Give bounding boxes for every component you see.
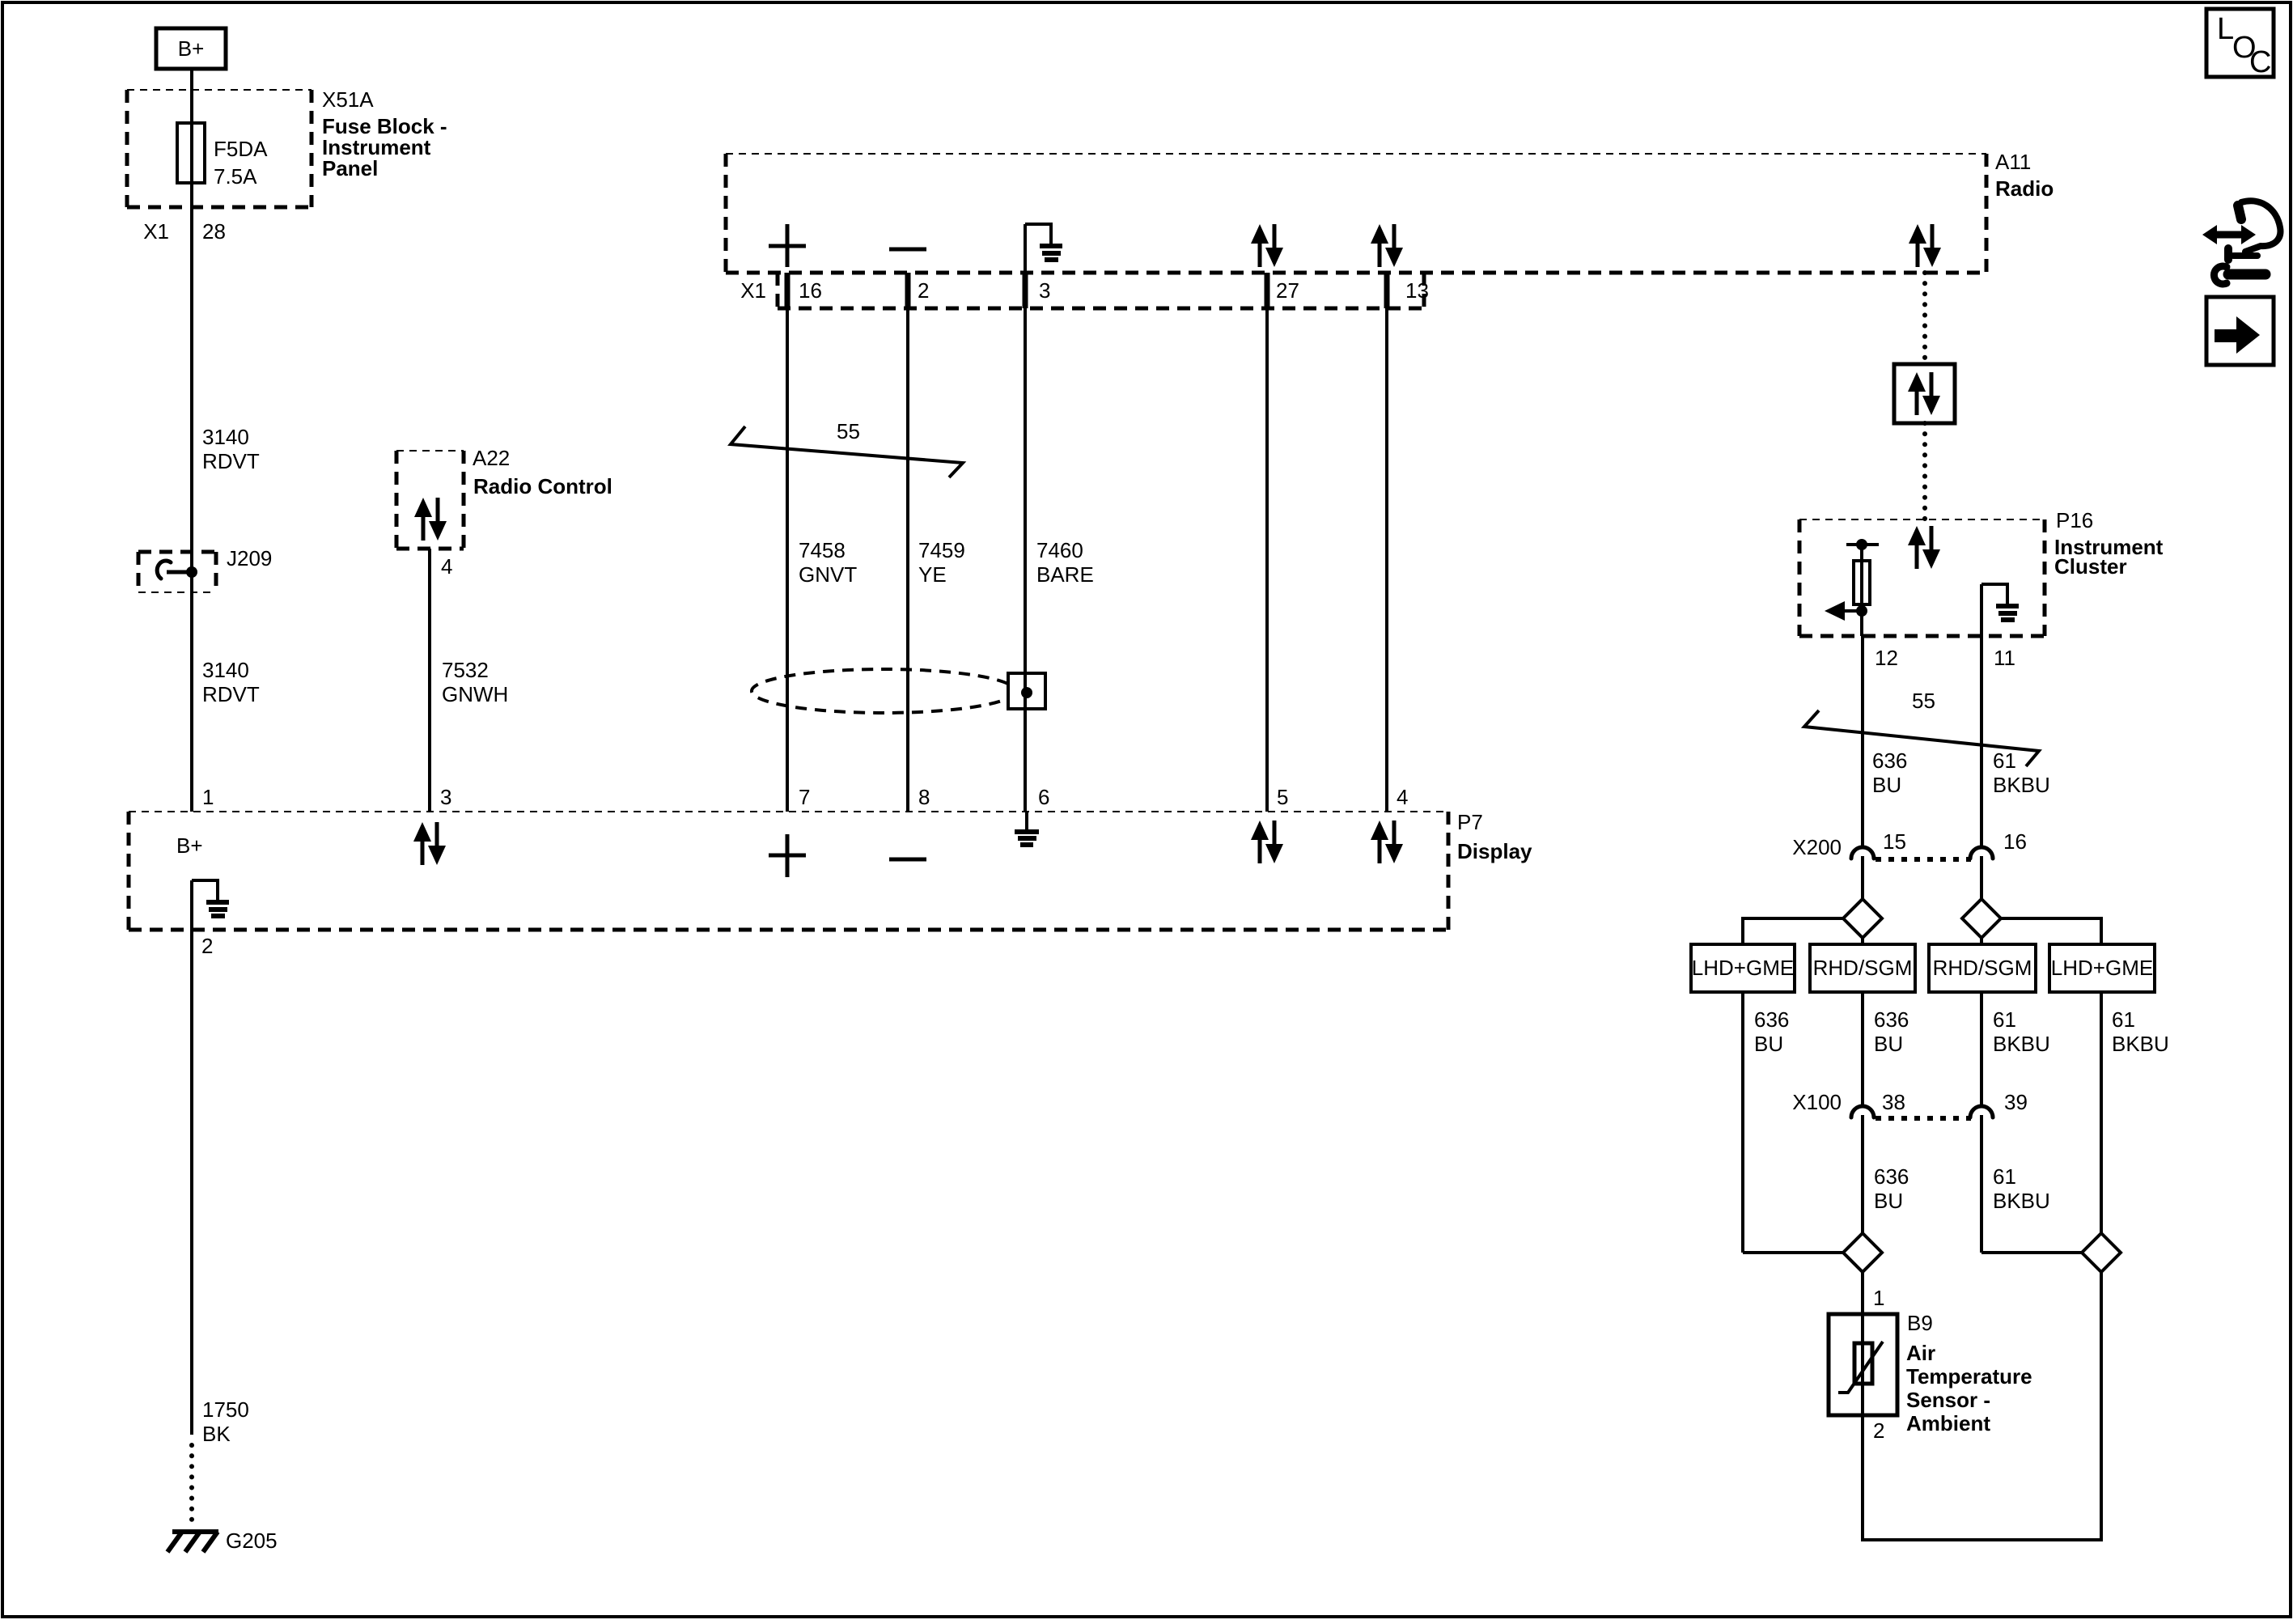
svg-text:A22: A22 <box>473 446 510 470</box>
svg-text:7: 7 <box>799 785 810 809</box>
svg-text:BK: BK <box>202 1422 231 1446</box>
svg-text:X200: X200 <box>1792 835 1842 859</box>
svg-text:4: 4 <box>1397 785 1408 809</box>
svg-text:636: 636 <box>1874 1164 1909 1189</box>
svg-text:BKBU: BKBU <box>1993 1032 2050 1056</box>
svg-text:LHD+GME: LHD+GME <box>1692 956 1794 980</box>
svg-text:G205: G205 <box>226 1529 278 1553</box>
svg-text:13: 13 <box>1405 278 1429 303</box>
svg-text:Radio: Radio <box>1995 176 2054 201</box>
svg-text:636: 636 <box>1874 1007 1909 1032</box>
svg-text:BKBU: BKBU <box>1993 773 2050 797</box>
svg-text:BKBU: BKBU <box>2112 1032 2169 1056</box>
svg-text:7.5A: 7.5A <box>214 164 257 189</box>
svg-text:12: 12 <box>1875 646 1898 670</box>
svg-text:X51A: X51A <box>322 87 374 112</box>
svg-text:Display: Display <box>1457 839 1532 863</box>
svg-text:BU: BU <box>1754 1032 1783 1056</box>
svg-text:RHD/SGM: RHD/SGM <box>1933 956 2032 980</box>
svg-text:11: 11 <box>1994 646 2015 670</box>
svg-text:BARE: BARE <box>1036 562 1094 587</box>
svg-text:61: 61 <box>2112 1007 2135 1032</box>
svg-text:Air: Air <box>1906 1341 1935 1365</box>
svg-text:BU: BU <box>1874 1032 1903 1056</box>
svg-text:L: L <box>2217 12 2234 46</box>
svg-text:16: 16 <box>799 278 822 303</box>
svg-text:Ambient: Ambient <box>1906 1411 1990 1435</box>
svg-text:P16: P16 <box>2056 508 2093 532</box>
svg-text:Panel: Panel <box>322 156 378 180</box>
svg-text:61: 61 <box>1993 1164 2016 1189</box>
svg-text:3140: 3140 <box>202 425 249 449</box>
svg-text:RDVT: RDVT <box>202 449 260 473</box>
svg-text:15: 15 <box>1883 829 1906 854</box>
svg-text:636: 636 <box>1872 748 1907 773</box>
svg-text:61: 61 <box>1993 1007 2016 1032</box>
svg-text:55: 55 <box>1912 689 1935 713</box>
svg-text:38: 38 <box>1882 1090 1905 1114</box>
svg-text:3: 3 <box>1039 278 1050 303</box>
svg-text:GNWH: GNWH <box>442 682 508 706</box>
svg-text:6: 6 <box>1038 785 1049 809</box>
svg-text:A11: A11 <box>1995 150 2031 174</box>
svg-text:7458: 7458 <box>799 538 846 562</box>
svg-text:4: 4 <box>441 554 452 579</box>
svg-text:RDVT: RDVT <box>202 682 260 706</box>
svg-text:1750: 1750 <box>202 1397 249 1422</box>
svg-text:55: 55 <box>837 419 860 443</box>
svg-text:5: 5 <box>1277 785 1288 809</box>
svg-text:F5DA: F5DA <box>214 137 268 161</box>
svg-text:7459: 7459 <box>918 538 965 562</box>
svg-text:BU: BU <box>1872 773 1901 797</box>
svg-text:YE: YE <box>918 562 947 587</box>
svg-text:636: 636 <box>1754 1007 1789 1032</box>
svg-text:28: 28 <box>202 219 226 244</box>
svg-text:RHD/SGM: RHD/SGM <box>1813 956 1913 980</box>
svg-text:X100: X100 <box>1792 1090 1842 1114</box>
svg-text:1: 1 <box>202 785 214 809</box>
svg-text:BKBU: BKBU <box>1993 1189 2050 1213</box>
svg-text:X1: X1 <box>143 219 169 244</box>
svg-text:3140: 3140 <box>202 658 249 682</box>
svg-text:Sensor -: Sensor - <box>1906 1388 1990 1412</box>
svg-text:61: 61 <box>1993 748 2016 773</box>
svg-text:27: 27 <box>1276 278 1299 303</box>
svg-text:B9: B9 <box>1907 1311 1933 1335</box>
svg-text:16: 16 <box>2003 829 2027 854</box>
svg-text:Temperature: Temperature <box>1906 1364 2032 1389</box>
svg-text:B+: B+ <box>178 36 205 61</box>
svg-text:GNVT: GNVT <box>799 562 857 587</box>
svg-text:B+: B+ <box>176 833 203 858</box>
svg-text:X1: X1 <box>740 278 766 303</box>
svg-text:2: 2 <box>201 934 213 958</box>
svg-text:C: C <box>2249 45 2271 79</box>
svg-text:7532: 7532 <box>442 658 489 682</box>
svg-text:LHD+GME: LHD+GME <box>2051 956 2153 980</box>
svg-text:1: 1 <box>1873 1286 1884 1310</box>
svg-text:Radio Control: Radio Control <box>473 474 612 498</box>
svg-text:2: 2 <box>918 278 929 303</box>
svg-text:39: 39 <box>2004 1090 2028 1114</box>
svg-text:Cluster: Cluster <box>2054 554 2127 579</box>
svg-text:2: 2 <box>1873 1418 1884 1443</box>
svg-text:P7: P7 <box>1457 810 1483 834</box>
svg-text:BU: BU <box>1874 1189 1903 1213</box>
svg-text:7460: 7460 <box>1036 538 1083 562</box>
svg-text:3: 3 <box>440 785 451 809</box>
svg-text:8: 8 <box>918 785 930 809</box>
svg-text:J209: J209 <box>227 546 272 570</box>
